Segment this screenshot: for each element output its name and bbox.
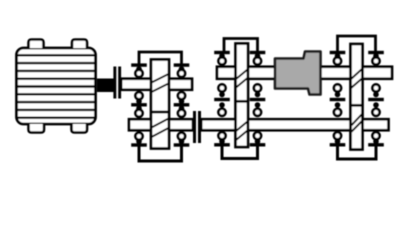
torque load coupling (gray) [275, 52, 321, 95]
GB2L bearing top-left [214, 53, 230, 65]
GB1 bearing bottom-left [131, 133, 147, 145]
GB2R bearing bottom-left [330, 132, 346, 145]
GB1 input gear hatch [152, 74, 169, 92]
GB2 left housing top bracket [224, 39, 258, 52]
GB2R bearing mid-left [330, 84, 346, 116]
GB1 bearing top-left [131, 65, 147, 77]
gearbox GB1 gear block [151, 60, 169, 149]
GB2 left top gear hatch [236, 70, 248, 88]
shaft: GB2 bottom span [248, 119, 352, 130]
shaft: GB2 bottom-right stub [362, 119, 389, 130]
GB2 left bottom gear hatch [236, 122, 248, 141]
shaft: coupling C1 to GB1 input [121, 79, 151, 90]
GB2L bearing mid-right [250, 84, 266, 116]
shaft: coupling C2 into GB2 left column [201, 119, 236, 130]
GB1 housing top bracket [139, 52, 182, 64]
GB1 bearing bottom-right [174, 133, 190, 145]
motor shaft stub [97, 79, 114, 93]
GB2R bearing bottom-right [368, 132, 384, 145]
GB2 right bottom gear hatch [352, 114, 364, 132]
GB2 right top gear hatch [351, 69, 362, 88]
shaft: GB1 input right stub [169, 79, 193, 90]
shaft: GB2 left column to torque coupling [248, 67, 277, 79]
motor body [17, 48, 96, 124]
GB1 housing bottom bracket [139, 146, 182, 161]
GB2L bearing bottom-left [214, 132, 230, 145]
GB2R bearing top-left [330, 53, 346, 65]
coupling C2 flange right [198, 111, 201, 143]
GB1 bearing top-right [174, 65, 190, 77]
GB2L bearing mid-left [214, 84, 230, 116]
motor top lug right [72, 40, 87, 49]
GB2R bearing mid-right [368, 84, 384, 116]
motor top lug left [29, 40, 44, 49]
motor foot left [29, 124, 45, 133]
GB2L bearing top-right [250, 53, 266, 65]
GB2 left gear block [236, 44, 249, 148]
shaft: torque coupling to GB2 right column [320, 67, 353, 79]
coupling C1 flange right [118, 67, 121, 99]
GB2R bearing top-right [368, 53, 384, 65]
coupling C2 flange left [193, 111, 196, 143]
GB2L bearing bottom-right [250, 132, 266, 145]
GB1 bearing mid-left [131, 92, 147, 117]
shaft: GB1 output to coupling C2 [169, 119, 194, 130]
GB1 output gear hatch [152, 119, 169, 138]
GB2 right gear block [351, 44, 363, 150]
motor foot right [72, 124, 88, 133]
shaft: GB2 top-right stub [362, 67, 393, 79]
GB2 left housing bottom bracket [222, 146, 258, 159]
GB1 bearing mid-right [174, 92, 190, 117]
shaft: GB1 output left stub [129, 119, 152, 130]
shaft: GB2 top-left stub [217, 67, 237, 79]
coupling C1 flange left [113, 67, 116, 99]
GB2 right housing bottom bracket [338, 146, 377, 159]
GB2 right housing top bracket [338, 36, 376, 52]
motor cooling fins [17, 55, 95, 117]
